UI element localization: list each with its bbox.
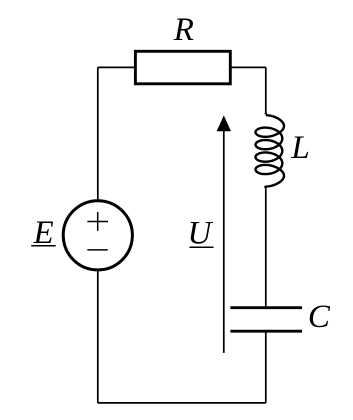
plus sign inside source	[87, 212, 108, 231]
wire left rail upper: down to source top	[97, 67, 99, 200]
capacitor C bottom plate	[230, 330, 302, 333]
svg-text:C: C	[308, 299, 331, 335]
voltage arrow U shaft	[223, 130, 225, 353]
inductor L (coil)	[256, 113, 285, 188]
svg-text:R: R	[173, 12, 194, 48]
underline of U	[190, 246, 214, 248]
wire right rail middle: capacitor top plate up to coil bottom	[265, 188, 267, 308]
resistor R (rectangle)	[135, 51, 230, 84]
capacitor C top plate	[230, 306, 302, 309]
underline of E	[31, 245, 56, 247]
wire top-right: corner to resistor right terminal	[230, 66, 265, 68]
wire bottom: left corner to right corner	[98, 402, 266, 404]
voltage source E (circle)	[63, 201, 132, 270]
svg-text:U: U	[188, 216, 214, 252]
wire right rail lower: up to capacitor bottom plate	[265, 331, 267, 403]
wire right rail upper: coil top to top-right corner	[265, 67, 267, 113]
minus sign inside source	[87, 249, 107, 251]
wire top-left: resistor left terminal to left rail	[98, 66, 136, 68]
voltage arrow U head	[217, 115, 231, 131]
svg-text:L: L	[290, 130, 309, 166]
wire left rail lower: source bottom to bottom-left corner	[97, 270, 99, 403]
